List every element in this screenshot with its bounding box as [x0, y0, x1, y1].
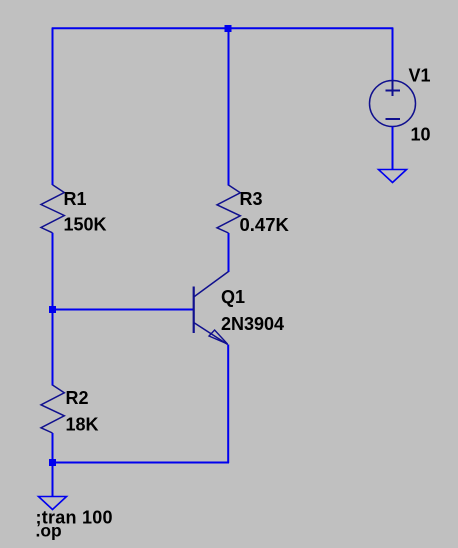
voltage source V1 — [370, 81, 416, 127]
svg-text:150K: 150K — [64, 215, 107, 235]
svg-text:.op: .op — [36, 521, 62, 541]
wire collector — [228, 233, 230, 272]
svg-text:0.47K: 0.47K — [240, 214, 290, 235]
svg-text:R2: R2 — [66, 388, 89, 408]
wire left rail bottom — [52, 433, 54, 463]
wire to ground left — [52, 463, 54, 497]
wire left rail middle — [52, 233, 54, 310]
svg-text:2N3904: 2N3904 — [221, 314, 284, 334]
svg-text:V1: V1 — [409, 66, 431, 86]
resistor R3 — [217, 185, 240, 233]
ground left — [39, 497, 67, 510]
ground right — [379, 170, 407, 183]
resistor R2 — [41, 385, 64, 433]
wire right rail upper — [392, 28, 394, 82]
wire bottom rail — [53, 462, 230, 464]
junction top node — [225, 25, 232, 32]
svg-text:18K: 18K — [66, 415, 99, 435]
junction bottom node — [49, 459, 56, 466]
resistor R1 — [41, 185, 64, 233]
wire middle rail upper — [228, 28, 230, 186]
wire left rail upper — [52, 28, 54, 186]
svg-text:R1: R1 — [64, 189, 87, 209]
wire emitter — [227, 345, 229, 464]
svg-text:10: 10 — [411, 125, 431, 145]
wire base — [53, 309, 194, 311]
transistor Q1 — [194, 272, 229, 345]
junction base node — [49, 306, 56, 313]
svg-text:Q1: Q1 — [221, 287, 245, 307]
wire top rail — [52, 27, 393, 29]
wire below V1 — [392, 127, 394, 170]
svg-text:R3: R3 — [240, 189, 263, 209]
wire left rail lower — [52, 310, 54, 386]
